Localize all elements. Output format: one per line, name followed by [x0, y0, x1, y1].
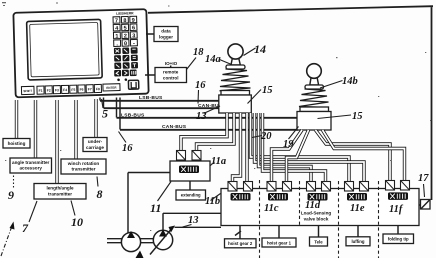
svg-text:Tele: Tele — [314, 239, 323, 244]
svg-text:folding tip: folding tip — [388, 237, 409, 242]
svg-text:14: 14 — [254, 42, 266, 56]
svg-text:14a: 14a — [205, 54, 221, 65]
svg-text:IO+IO: IO+IO — [165, 61, 178, 66]
svg-text:carriage: carriage — [86, 145, 104, 150]
svg-text:14b: 14b — [342, 76, 358, 87]
svg-text:data: data — [161, 29, 171, 34]
svg-text:F6: F6 — [79, 88, 83, 92]
svg-text:F3: F3 — [55, 88, 59, 92]
svg-text:angle transmitter: angle transmitter — [12, 160, 49, 165]
svg-text:11a: 11a — [211, 156, 226, 167]
svg-text:LSB-BUS: LSB-BUS — [121, 113, 145, 119]
svg-text:7: 7 — [22, 221, 29, 235]
svg-text:ENTER: ENTER — [106, 86, 117, 90]
svg-text:luffing: luffing — [351, 239, 364, 244]
svg-text:logger: logger — [159, 34, 173, 39]
svg-text:transmitter: transmitter — [48, 191, 72, 196]
svg-text:accessory: accessory — [19, 166, 42, 171]
svg-text:length/angle: length/angle — [46, 186, 73, 191]
svg-text:9: 9 — [8, 188, 14, 202]
svg-text:extending: extending — [181, 193, 201, 198]
svg-text:Load-Sensing: Load-Sensing — [301, 211, 332, 216]
svg-text:CAN-BUS: CAN-BUS — [162, 124, 187, 130]
svg-text:18: 18 — [193, 47, 204, 58]
svg-text:11e: 11e — [350, 203, 365, 214]
svg-text:7: 7 — [115, 17, 119, 24]
svg-text:hoist gear 1: hoist gear 1 — [267, 240, 292, 245]
svg-text:winch rotation: winch rotation — [67, 161, 100, 166]
svg-text:8: 8 — [97, 187, 103, 201]
svg-text:11c: 11c — [264, 203, 279, 214]
svg-text:LSB-BUS: LSB-BUS — [139, 95, 163, 101]
svg-text:LIEBHERR: LIEBHERR — [116, 11, 134, 15]
svg-text:11f: 11f — [389, 204, 404, 215]
svg-text:5: 5 — [102, 107, 108, 121]
svg-text:19: 19 — [283, 139, 294, 150]
svg-text:11d: 11d — [305, 200, 321, 211]
svg-text:16: 16 — [195, 80, 206, 91]
svg-text:17: 17 — [418, 173, 429, 184]
svg-text:11: 11 — [150, 201, 161, 215]
svg-text:.: . — [115, 40, 119, 47]
svg-text:F5: F5 — [71, 88, 75, 92]
svg-text:-: - — [132, 40, 136, 47]
svg-text:remote: remote — [163, 70, 179, 75]
svg-text:10: 10 — [71, 215, 83, 229]
svg-text:F2: F2 — [47, 89, 51, 93]
svg-text:under-: under- — [88, 139, 103, 144]
svg-text:F4: F4 — [63, 88, 67, 92]
svg-text:hoisting: hoisting — [8, 141, 26, 146]
svg-text:valve block: valve block — [304, 217, 329, 222]
svg-text:control: control — [163, 75, 179, 80]
svg-text:transmitter: transmitter — [72, 167, 96, 172]
svg-text:15: 15 — [262, 85, 273, 96]
svg-text:SHIFT: SHIFT — [23, 89, 32, 93]
svg-text:11b: 11b — [205, 196, 220, 207]
svg-text:16: 16 — [122, 143, 133, 154]
svg-text:F7: F7 — [88, 87, 92, 91]
svg-text:F8: F8 — [96, 87, 100, 91]
svg-text:15: 15 — [352, 111, 363, 122]
svg-text:F1: F1 — [39, 89, 43, 93]
svg-text:20: 20 — [260, 131, 272, 142]
svg-text:hoist gear 2: hoist gear 2 — [228, 241, 253, 246]
svg-text:13: 13 — [188, 215, 199, 226]
